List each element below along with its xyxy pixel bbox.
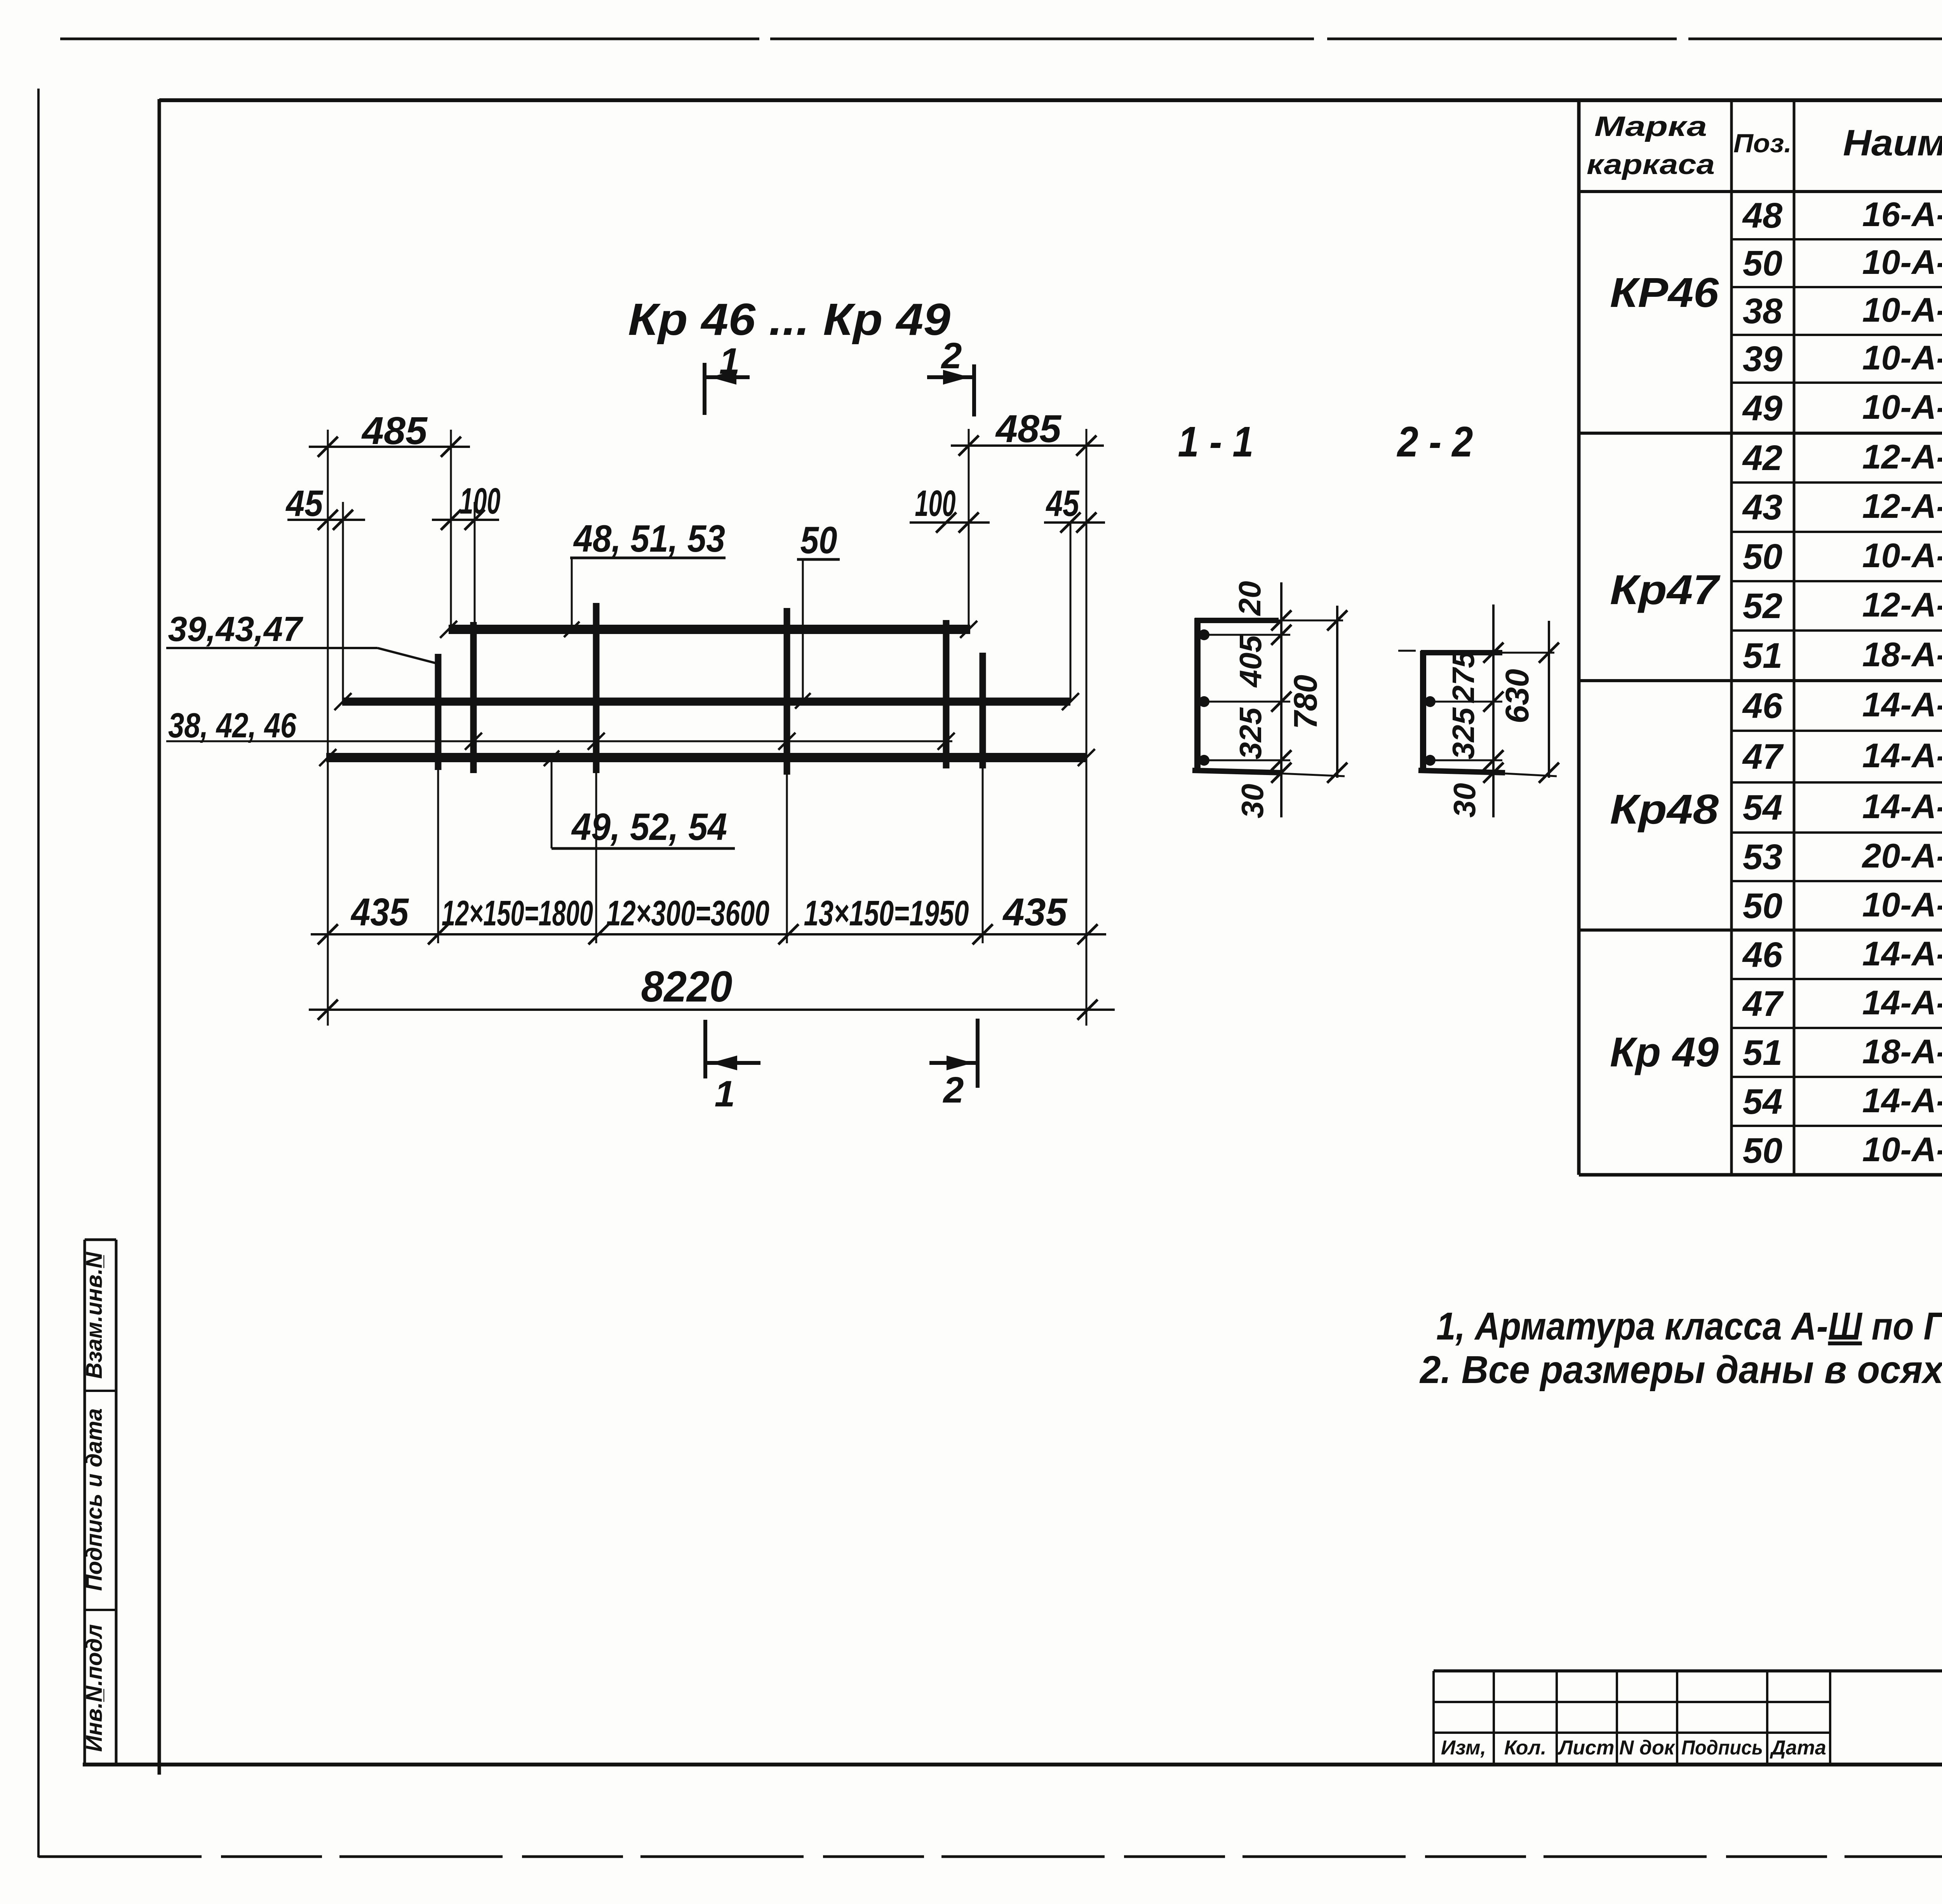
section 2-2 bar dots <box>1425 696 1436 766</box>
svg-text:30: 30 <box>1235 784 1270 819</box>
svg-text:10-А-Ш,: 10-А-Ш, <box>1862 338 1942 377</box>
svg-text:14-А-Ш,: 14-А-Ш, <box>1862 787 1942 826</box>
svg-text:405: 405 <box>1233 635 1268 688</box>
svg-text:13×150=1950: 13×150=1950 <box>804 894 969 933</box>
svg-text:53: 53 <box>1743 837 1782 877</box>
middle bar 50 <box>334 693 1079 710</box>
section 2-2 overall dim 630 <box>1499 621 1559 783</box>
row поз 50 : 10-АIII l=8130 <box>1743 1130 1942 1171</box>
svg-text:10-А-Ш,: 10-А-Ш, <box>1862 536 1942 575</box>
extension line right end <box>1086 429 1088 1026</box>
svg-text:8220: 8220 <box>641 962 733 1011</box>
svg-text:1: 1 <box>715 1073 735 1115</box>
spacing dim texts <box>350 890 1068 934</box>
svg-text:50: 50 <box>1743 886 1782 926</box>
svg-text:39: 39 <box>1743 339 1782 379</box>
svg-text:54: 54 <box>1743 1082 1782 1122</box>
extension line left end <box>327 430 329 1026</box>
svg-text:38, 42, 46: 38, 42, 46 <box>168 706 297 745</box>
row поз 39 : 10-АIII l=630 <box>1743 338 1942 379</box>
row поз 46 : 14-АIII l=780 <box>1742 685 1942 726</box>
frame bottom <box>83 1763 1942 1766</box>
full stirrup mid1 <box>593 603 600 943</box>
header Наименование <box>1843 122 1942 164</box>
svg-text:48: 48 <box>1742 196 1783 235</box>
extension line bar50 right <box>1070 524 1072 702</box>
svg-text:2: 2 <box>941 335 962 376</box>
dim 45 right <box>1044 483 1105 533</box>
svg-text:30: 30 <box>1447 783 1482 818</box>
row поз 53 : 20-АIII l=7250 <box>1743 836 1942 877</box>
extension line bar50 left <box>342 502 344 702</box>
mark label КР46 <box>1610 269 1719 316</box>
svg-text:Изм,: Изм, <box>1441 1737 1486 1759</box>
table header line <box>1579 190 1942 193</box>
section 2-2 stirrup <box>1398 651 1505 773</box>
revision table captions <box>1441 1737 1826 1759</box>
svg-text:47: 47 <box>1742 737 1784 777</box>
strip label Инв.N подл <box>82 1624 107 1752</box>
svg-text:50: 50 <box>1743 1131 1782 1171</box>
section mark 1 top <box>705 341 750 415</box>
row поз 54 : 14-АIII l=8220 <box>1743 787 1942 827</box>
svg-text:46: 46 <box>1742 686 1783 726</box>
svg-text:46: 46 <box>1742 935 1783 975</box>
label 50 with leader <box>795 519 840 709</box>
svg-text:435: 435 <box>1002 890 1068 934</box>
bottom bar 49,52,54 <box>319 749 1095 766</box>
mark label Кр 49 <box>1610 1028 1719 1075</box>
svg-text:10-А-Ш,: 10-А-Ш, <box>1862 885 1942 924</box>
row поз 43 : 12-АIII l=630 <box>1742 487 1942 527</box>
svg-text:N док: N док <box>1619 1737 1676 1759</box>
row поз 47 : 14-АIII l=630 <box>1742 983 1942 1024</box>
row поз 52 : 12-АIII l=8220 <box>1743 585 1942 626</box>
svg-text:50: 50 <box>800 519 837 561</box>
svg-text:1 - 1: 1 - 1 <box>1178 418 1254 466</box>
overall dim 8220 <box>309 962 1115 1020</box>
section 1-1 overall dim 780 <box>1287 606 1347 783</box>
note 2 <box>1419 1348 1942 1392</box>
full stirrup left 38/42/46 <box>470 622 477 773</box>
svg-text:Марка: Марка <box>1594 111 1707 142</box>
svg-text:45: 45 <box>1046 483 1080 524</box>
extension line top bar right <box>968 429 970 630</box>
mark label Кр47 <box>1610 566 1721 613</box>
svg-text:100: 100 <box>460 481 501 522</box>
revision table <box>1434 1671 1830 1765</box>
svg-text:100: 100 <box>915 483 956 524</box>
svg-text:12-А-Ш,: 12-А-Ш, <box>1862 585 1942 624</box>
outer border top <box>60 38 1942 40</box>
svg-text:Подпись и дата: Подпись и дата <box>82 1408 107 1591</box>
end stirrup left 39/43/47 <box>435 654 442 943</box>
svg-text:275: 275 <box>1446 650 1481 704</box>
row поз 49 : 10-АIII l=8220 <box>1742 388 1942 428</box>
strip label Взам.инв.N <box>82 1252 107 1379</box>
section mark 2 top <box>927 335 974 416</box>
svg-text:43: 43 <box>1742 488 1782 527</box>
svg-text:Подпись: Подпись <box>1681 1737 1763 1759</box>
svg-text:630: 630 <box>1499 669 1535 723</box>
section 1-1 dot leaders <box>1204 620 1345 776</box>
dim 45 left <box>285 483 365 530</box>
svg-text:2. Все размеры даны в осях: 2. Все размеры даны в осях стержней. <box>1419 1348 1942 1392</box>
svg-text:КР46: КР46 <box>1610 269 1719 316</box>
top bar 48,51,53 <box>440 621 977 638</box>
section title 1-1 <box>1178 418 1254 466</box>
svg-text:2: 2 <box>943 1070 964 1111</box>
row поз 51 : 18-АIII l=7250 <box>1743 635 1942 676</box>
svg-text:42: 42 <box>1742 438 1782 478</box>
section 1-1 dim line <box>1271 582 1291 817</box>
full stirrup right <box>943 620 950 768</box>
section title 2-2 <box>1397 418 1473 466</box>
svg-text:14-А-Ш,: 14-А-Ш, <box>1862 934 1942 973</box>
svg-text:1, Арматура класса А-Ш по: 1, Арматура класса А-Ш по ГОСТ 5781-82. <box>1436 1305 1942 1348</box>
row поз 42 : 12-АIII l=780 <box>1742 437 1942 478</box>
end stirrup right <box>980 653 986 943</box>
section 1-1 bar dots <box>1199 629 1209 766</box>
frame left <box>158 99 161 1775</box>
svg-text:49, 52, 54: 49, 52, 54 <box>571 805 727 848</box>
svg-text:Дата: Дата <box>1770 1737 1826 1759</box>
dim 100 right <box>910 483 990 533</box>
mark label Кр48 <box>1610 786 1719 833</box>
svg-text:18-А-Ш,: 18-А-Ш, <box>1862 635 1942 674</box>
svg-text:12×150=1800: 12×150=1800 <box>442 894 593 933</box>
svg-text:50: 50 <box>1743 244 1782 283</box>
svg-text:39,43,47: 39,43,47 <box>168 610 304 649</box>
svg-text:12-А-Ш,: 12-А-Ш, <box>1862 487 1942 525</box>
svg-text:51: 51 <box>1743 636 1782 676</box>
svg-text:Кр 46 ... Кр 49: Кр 46 ... Кр 49 <box>628 294 950 345</box>
label 39,43,47 with leader <box>166 610 437 664</box>
svg-text:325: 325 <box>1446 707 1481 760</box>
svg-text:2 - 2: 2 - 2 <box>1397 418 1473 466</box>
extension line top bar left <box>450 430 452 630</box>
svg-text:Кр48: Кр48 <box>1610 786 1719 833</box>
svg-text:52: 52 <box>1743 586 1782 626</box>
header Поз <box>1733 129 1792 158</box>
svg-text:20-А-Ш,: 20-А-Ш, <box>1862 836 1942 875</box>
svg-text:Кол.: Кол. <box>1504 1737 1547 1759</box>
section mark 1 bottom <box>705 1020 760 1115</box>
outer border bottom <box>38 1855 1942 1858</box>
svg-text:Кр47: Кр47 <box>1610 566 1721 613</box>
svg-text:38: 38 <box>1743 291 1783 331</box>
svg-text:Инв.N̲.подл: Инв.N̲.подл <box>82 1624 107 1752</box>
row поз 50 : 10-АIII l=8130 <box>1743 243 1942 283</box>
full stirrup mid2 <box>784 608 790 943</box>
left stamp strip box <box>85 1240 116 1765</box>
svg-text:14-А-Ш,: 14-А-Ш, <box>1862 685 1942 724</box>
svg-text:780: 780 <box>1287 675 1324 729</box>
svg-text:47: 47 <box>1742 984 1784 1024</box>
svg-text:12×300=3600: 12×300=3600 <box>606 894 769 933</box>
svg-text:18-А-Ш,: 18-А-Ш, <box>1862 1032 1942 1071</box>
svg-text:485: 485 <box>995 407 1061 451</box>
note 1 <box>1436 1305 1942 1348</box>
row поз 47 : 14-АIII l=630 <box>1742 736 1942 777</box>
drawing title Кр46...Кр49 <box>628 294 950 345</box>
svg-text:45: 45 <box>285 483 324 524</box>
svg-text:14-А-Ш,: 14-А-Ш, <box>1862 1081 1942 1120</box>
section 2-2 dot leaders <box>1430 653 1557 776</box>
extension stirrup left <box>474 502 476 622</box>
section mark 2 bottom <box>929 1019 978 1111</box>
svg-text:10-А-Ш,: 10-А-Ш, <box>1862 243 1942 281</box>
table group lines <box>1579 433 1942 1175</box>
row поз 38 : 10-АIII l=780 <box>1743 291 1942 331</box>
strip label Подпись и дата <box>82 1408 107 1591</box>
svg-text:485: 485 <box>361 409 428 453</box>
section 1-1 stirrup <box>1192 618 1282 773</box>
label 38,42,46 with leader and ticks <box>166 706 955 750</box>
svg-text:14-А-Ш,: 14-А-Ш, <box>1862 736 1942 775</box>
svg-text:Лист: Лист <box>1557 1737 1615 1759</box>
row поз 46 : 14-АIII l=780 <box>1742 934 1942 975</box>
svg-text:10-А-Ш,: 10-А-Ш, <box>1862 388 1942 426</box>
svg-text:20: 20 <box>1232 581 1267 617</box>
label 48,51,53 with leader <box>564 517 726 637</box>
label 49,52,54 with leader <box>544 751 735 848</box>
header Марка каркаса <box>1587 111 1715 180</box>
table verticals <box>1579 99 1942 1175</box>
dim 485 right <box>951 407 1104 456</box>
svg-text:10-А-Ш,: 10-А-Ш, <box>1862 291 1942 329</box>
section 2-2 dim line <box>1483 604 1503 817</box>
svg-text:16-А-Ш,: 16-А-Ш, <box>1862 195 1942 233</box>
row поз 50 : 10-АIII l=8130 <box>1743 885 1942 926</box>
svg-text:435: 435 <box>350 890 409 934</box>
section 1-1 dim texts <box>1232 581 1270 819</box>
svg-text:10-А-Ш,: 10-А-Ш, <box>1862 1130 1942 1169</box>
dim 100 left <box>432 481 501 530</box>
table row lines <box>1731 239 1942 1126</box>
svg-text:Кр 49: Кр 49 <box>1610 1028 1719 1075</box>
svg-text:325: 325 <box>1233 707 1268 760</box>
row поз 50 : 10-АIII l=8130 <box>1743 536 1942 577</box>
dim 485 left <box>309 409 470 457</box>
row поз 54 : 14-АIII l=8220 <box>1743 1081 1942 1122</box>
svg-text:54: 54 <box>1743 788 1782 827</box>
svg-text:49: 49 <box>1742 388 1782 428</box>
svg-text:1: 1 <box>719 341 740 382</box>
svg-text:Поз.: Поз. <box>1733 129 1792 158</box>
row поз 51 : 18-АIII l=7250 <box>1743 1032 1942 1073</box>
spacing dim line <box>311 924 1106 944</box>
svg-text:Взам.инв.N̲: Взам.инв.N̲ <box>82 1252 107 1379</box>
title block top line <box>1434 1669 1942 1672</box>
svg-text:48, 51, 53: 48, 51, 53 <box>573 517 725 560</box>
svg-text:каркаса: каркаса <box>1587 149 1715 180</box>
frame top <box>159 98 1942 102</box>
svg-text:50: 50 <box>1743 537 1782 577</box>
svg-text:Наименование: Наименование <box>1843 122 1942 164</box>
outer border left <box>37 89 40 1857</box>
svg-text:14-А-Ш,: 14-А-Ш, <box>1862 983 1942 1022</box>
svg-text:51: 51 <box>1743 1033 1782 1073</box>
svg-text:12-А-Ш,: 12-А-Ш, <box>1862 437 1942 476</box>
section 2-2 dim texts <box>1446 650 1482 818</box>
row поз 48 : 16-АIII l=7250 <box>1742 195 1942 235</box>
